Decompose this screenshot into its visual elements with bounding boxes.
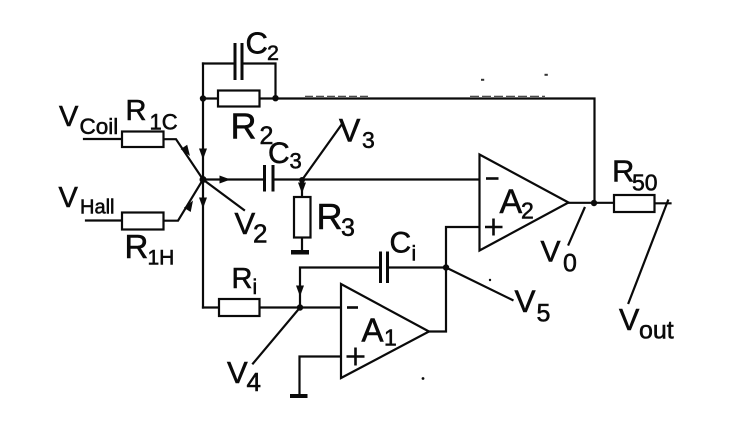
svg-text:R: R [125,228,149,265]
svg-text:V: V [59,101,79,133]
svg-text:R: R [231,106,257,147]
svg-text:1C: 1C [150,110,178,135]
svg-text:i: i [253,276,258,299]
svg-text:V: V [59,182,79,214]
svg-text:R: R [232,263,253,295]
svg-text:5: 5 [537,300,551,328]
svg-text:V: V [339,113,361,149]
svg-text:V: V [541,236,561,269]
svg-text:3: 3 [362,127,375,153]
svg-text:V: V [619,303,640,337]
svg-text:50: 50 [632,170,658,196]
svg-text:R: R [317,196,343,237]
svg-text:Hall: Hall [80,197,114,219]
svg-text:2: 2 [267,41,279,65]
svg-text:A: A [500,183,523,221]
svg-text:i: i [412,243,417,266]
svg-text:C: C [268,137,290,170]
svg-text:1: 1 [384,325,397,351]
svg-text:2: 2 [253,219,267,249]
svg-text:3: 3 [290,149,302,174]
svg-text:V: V [227,355,248,390]
svg-text:C: C [246,26,268,61]
svg-text:1H: 1H [148,247,175,270]
svg-text:2: 2 [521,198,534,224]
svg-text:V: V [515,283,536,319]
svg-text:A: A [362,312,384,349]
svg-text:4: 4 [247,367,261,397]
svg-text:0: 0 [563,250,577,278]
svg-text:Coil: Coil [80,114,119,139]
svg-text:C: C [390,227,412,260]
svg-text:R: R [126,95,147,127]
svg-text:out: out [639,317,674,345]
svg-text:3: 3 [341,214,355,242]
